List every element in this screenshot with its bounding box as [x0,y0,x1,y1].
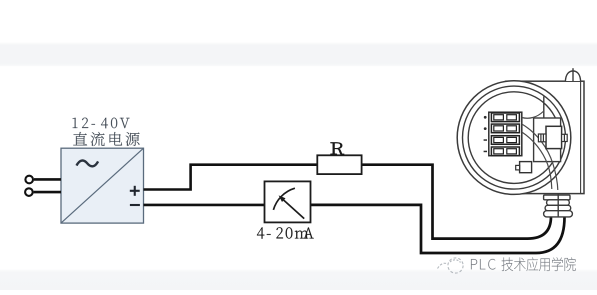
wire resistor R to transmitter cable [362,165,551,239]
inner ring [468,92,560,184]
electronics bracket [534,118,561,162]
terminal block [489,112,522,156]
wire meter to transmitter cable [311,205,565,253]
ammeter M1 [265,181,311,222]
transmitter round cover outer ring [457,81,571,195]
meter scale arc [273,188,295,210]
watermark logo [438,258,464,273]
plus terminal label [130,186,140,196]
jumper component [520,162,532,173]
input terminal T1 [25,176,33,184]
wire PS1 plus to resistor R [144,165,318,190]
minus terminal label [130,204,140,206]
internal lead wires [522,112,558,191]
left connector nub [538,134,546,142]
right connector nub [562,134,568,141]
wire PS1 minus to meter [144,204,265,207]
cable gland [544,195,573,217]
AC sine symbol [77,161,99,167]
terminal pin markers [484,116,487,152]
label 4-20mA [257,227,314,238]
electronics module U1 [546,126,562,148]
label 12-40V [73,118,130,129]
watermark text PLC... [471,259,496,270]
wire T2 to PS1 [34,191,61,194]
transmitter top vent dome [565,71,580,81]
electronics mounting stem [543,96,545,118]
resistor R [317,155,361,174]
input terminal T2 [25,188,33,196]
transmitter body housing [506,81,584,193]
meter needle [281,197,305,218]
label R [331,142,344,154]
middle ring [463,86,566,189]
power supply PS1 box [61,148,144,223]
label DC power supply (CJK) [73,132,139,146]
wire T1 to PS1 [34,178,61,181]
